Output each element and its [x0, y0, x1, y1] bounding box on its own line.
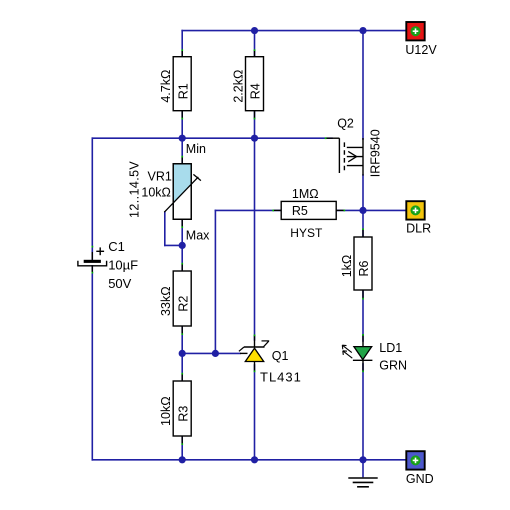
node bottom R3 junction [179, 456, 186, 463]
svg-text:U12V: U12V [405, 43, 437, 57]
node DLR junction [359, 207, 366, 214]
svg-text:IRF9540: IRF9540 [368, 129, 382, 177]
wire VR1 to R2 [181, 219, 183, 271]
wire ref row to Q1 [182, 352, 240, 354]
ground [348, 478, 377, 487]
svg-text:R2: R2 [176, 296, 190, 312]
node Min junction [179, 135, 186, 142]
svg-text:C1: C1 [108, 239, 125, 254]
svg-text:GRN: GRN [379, 359, 407, 373]
svg-text:2.2kΩ: 2.2kΩ [232, 70, 246, 103]
node bottom Q1 junction [251, 456, 258, 463]
wire R2 to R3 [181, 326, 183, 381]
pin marks [92, 49, 364, 445]
wire R1 bottom to VR1 [181, 111, 183, 164]
svg-text:HYST: HYST [290, 226, 323, 240]
svg-text:1MΩ: 1MΩ [292, 187, 319, 201]
svg-text:TL431: TL431 [260, 369, 302, 384]
resistor R1 [159, 50, 191, 119]
port DLR [406, 201, 431, 235]
svg-text:10kΩ: 10kΩ [159, 396, 173, 426]
svg-text:10kΩ: 10kΩ [141, 186, 171, 200]
node junction top Q2 [359, 27, 366, 34]
wire Q2 to R6 [362, 175, 364, 237]
node divider junction [179, 350, 186, 357]
svg-text:R6: R6 [357, 260, 371, 276]
wire R6 to LD1 [362, 290, 364, 341]
svg-text:GND: GND [406, 472, 434, 486]
resistor R6 [340, 229, 372, 299]
wire bottom rail [92, 459, 407, 461]
LED LD1 [342, 335, 407, 373]
svg-text:R4: R4 [249, 83, 263, 99]
node ref junction [212, 350, 219, 357]
svg-text:LD1: LD1 [379, 341, 402, 355]
wire R1 top [181, 31, 183, 57]
wire hyst feed horizontal [215, 209, 281, 211]
wire left rail lower [91, 266, 93, 460]
wire hyst feed vertical [214, 210, 216, 353]
svg-text:4.7kΩ: 4.7kΩ [159, 70, 173, 103]
svg-text:33kΩ: 33kΩ [159, 286, 173, 316]
wire VR1 wiper horizontal [165, 244, 182, 246]
wire VR1 wiper vertical [164, 212, 166, 245]
svg-text:1kΩ: 1kΩ [340, 255, 354, 278]
svg-text:R3: R3 [176, 406, 190, 422]
port U12V [405, 22, 437, 57]
svg-text:DLR: DLR [406, 222, 431, 236]
wire Q2 rail top [362, 31, 364, 139]
svg-text:12..14.5V: 12..14.5V [127, 161, 141, 218]
node junction top R4 [251, 27, 258, 34]
svg-text:Q2: Q2 [337, 117, 354, 131]
wire left rail upper [91, 138, 93, 260]
svg-text:50V: 50V [108, 276, 131, 291]
node Max junction [179, 242, 186, 249]
wire GND stem [362, 460, 364, 477]
wire R3 bottom [181, 436, 183, 460]
port GND [406, 451, 434, 486]
svg-text:10µF: 10µF [108, 258, 138, 273]
svg-text:Max: Max [186, 229, 210, 243]
wire top rail U12V [182, 30, 406, 32]
transistor Q2 IRF9540 [326, 117, 383, 178]
svg-text:Min: Min [186, 142, 206, 156]
resistor R2 [159, 264, 191, 335]
svg-text:R1: R1 [176, 83, 190, 99]
svg-text:VR1: VR1 [148, 170, 172, 184]
node gate R4 junction [251, 135, 258, 142]
potentiometer VR1 [127, 157, 201, 228]
wire gate row [92, 137, 332, 139]
svg-text:Q1: Q1 [272, 349, 289, 363]
shunt regulator Q1 TL431 [239, 335, 302, 384]
wire R4 top [254, 31, 256, 57]
wire Q1 anode to bottom [254, 365, 256, 460]
resistor R4 [232, 50, 264, 119]
svg-text:R5: R5 [292, 204, 308, 218]
resistor R5 [273, 187, 344, 240]
wire R5 to DLR [336, 209, 406, 211]
wire R4 bottom to Q1 [254, 111, 256, 340]
node bottom GND junction [359, 456, 366, 463]
resistor R3 [159, 374, 191, 445]
capacitor C1 [78, 239, 138, 291]
wire LD1 to bottom [362, 364, 364, 460]
